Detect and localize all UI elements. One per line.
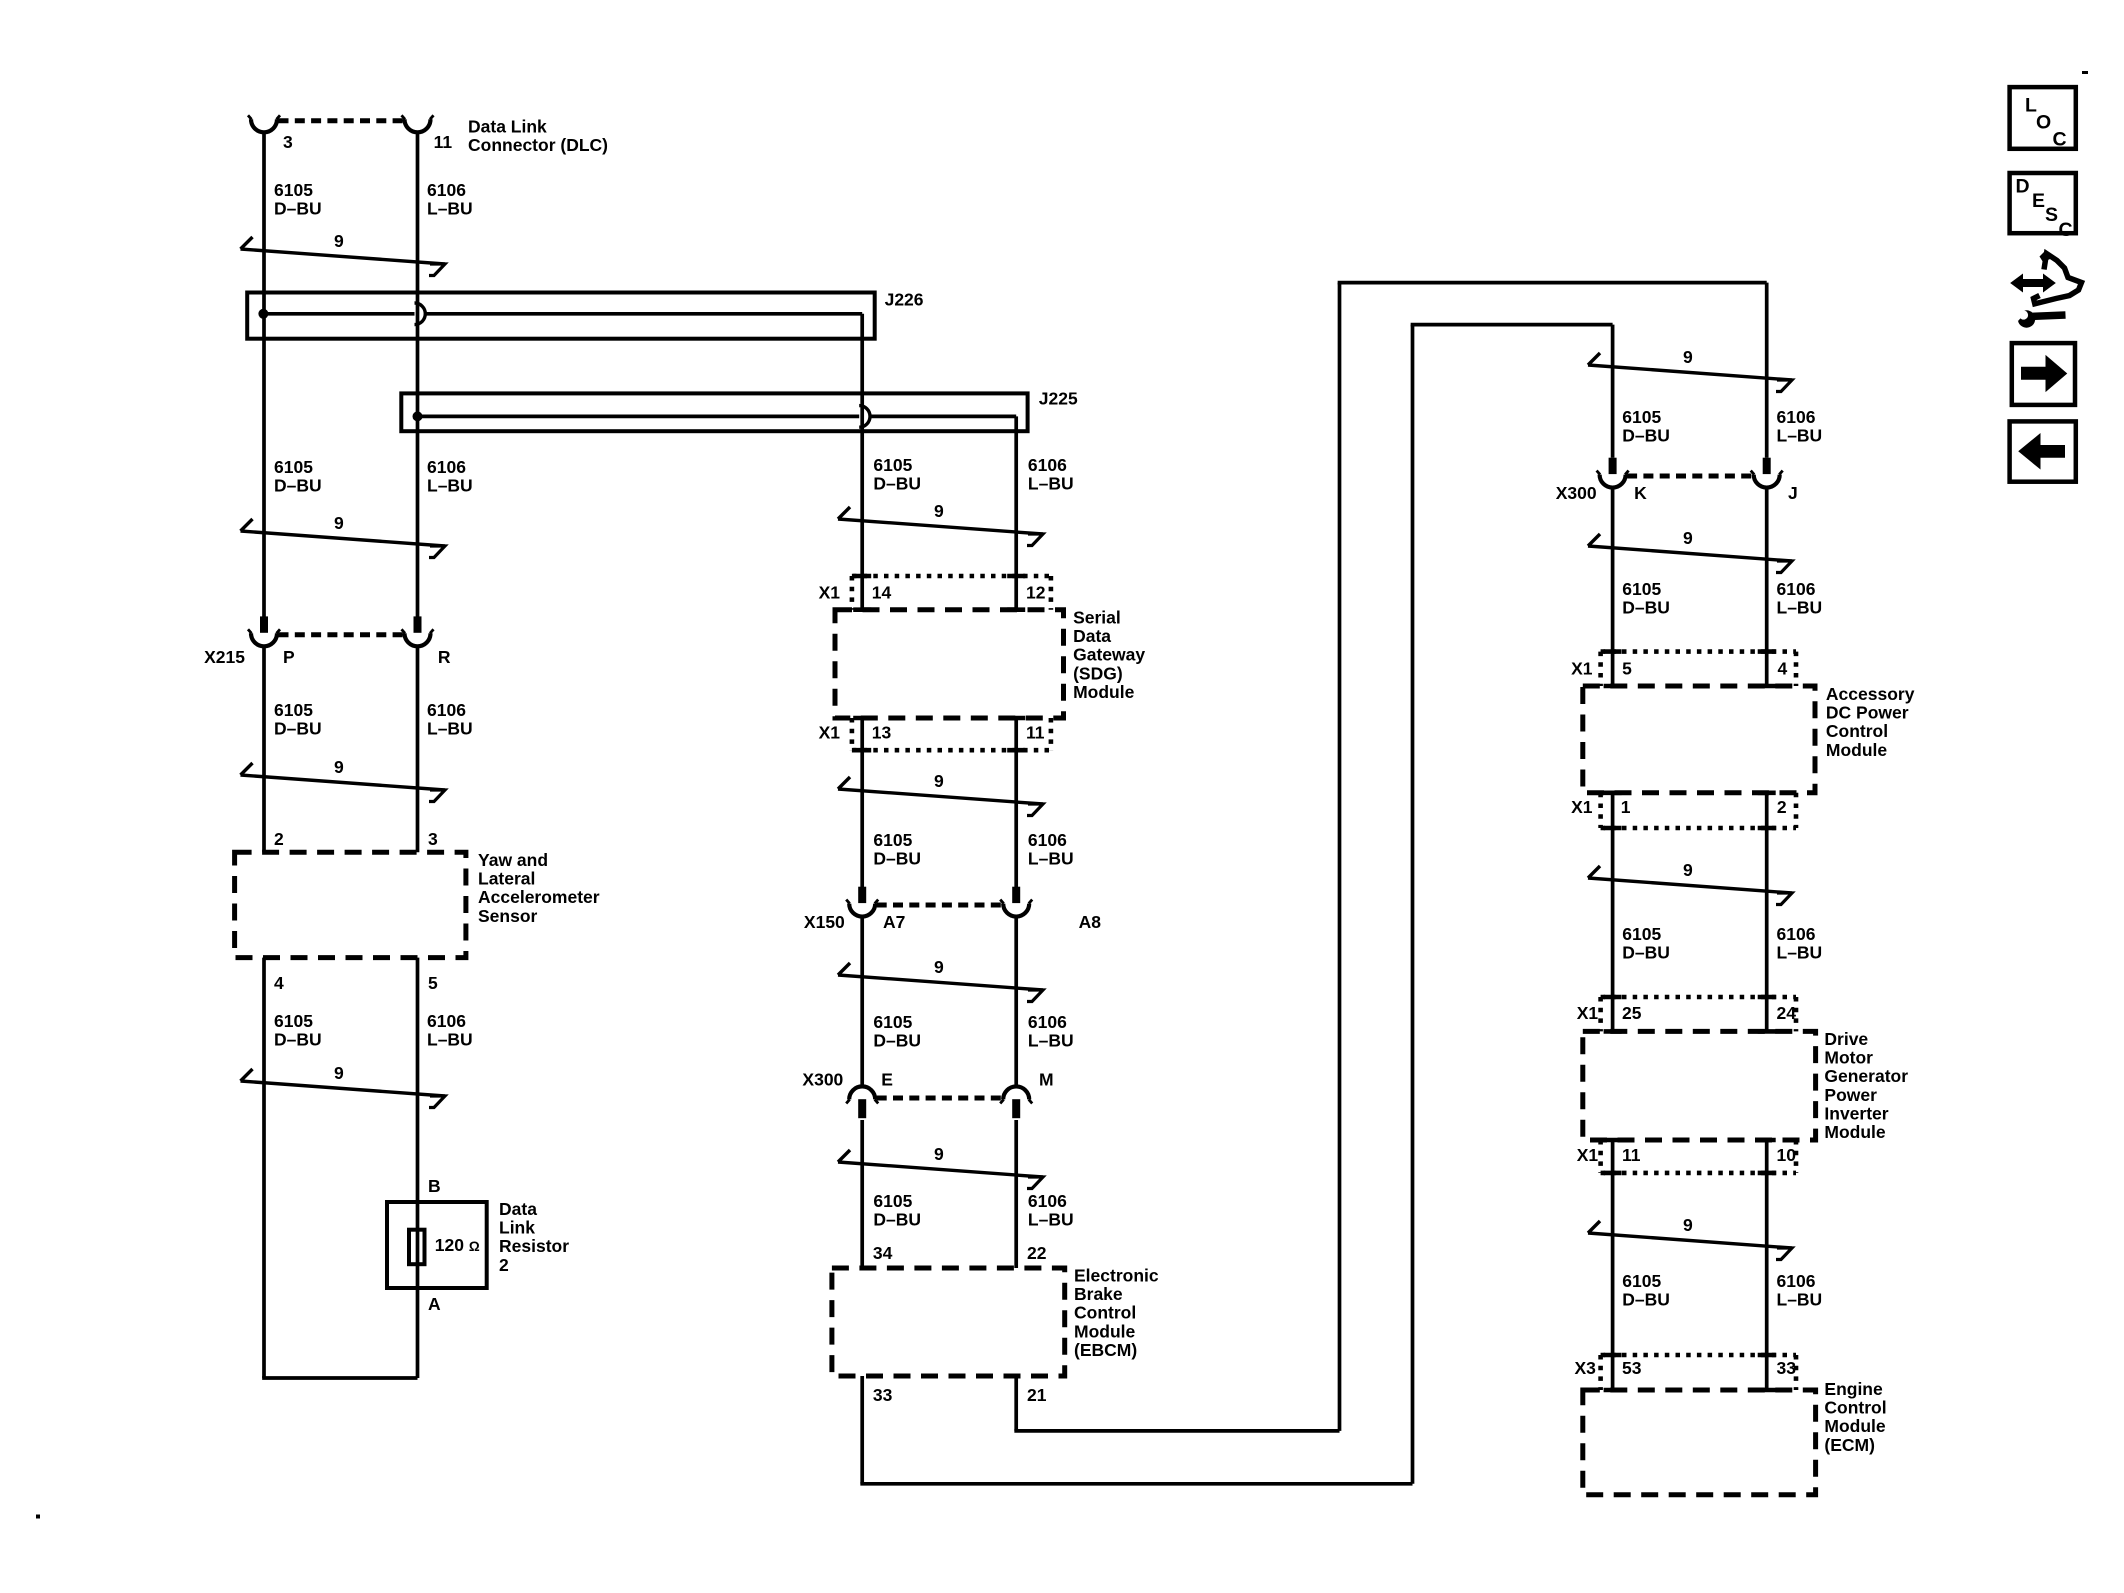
svg-text:(EBCM): (EBCM) [1074,1340,1137,1360]
svg-text:Module: Module [1826,740,1888,760]
wire 6105 D-BU from EBCM pin 33 routed right and up [860,1376,864,1484]
svg-text:Module: Module [1824,1122,1886,1142]
connector X3 band on top of ECM module [1601,1353,1796,1358]
svg-text:6105: 6105 [274,700,313,720]
connector X150 pin A7 (pin and cup) [858,887,866,903]
connector X215 pin R (pin and cup) [414,616,422,632]
svg-text:X1: X1 [819,723,841,743]
svg-text:9: 9 [934,957,944,977]
svg-text:6105: 6105 [274,180,313,200]
connector X1 band under Drive module [1601,1171,1796,1176]
svg-text:X150: X150 [804,912,845,932]
svg-text:Link: Link [499,1218,535,1238]
svg-text:5: 5 [1622,659,1632,679]
svg-text:6106: 6106 [427,180,466,200]
svg-text:Serial: Serial [1073,608,1121,628]
module Accessory DC Power Control Module box [1583,686,1815,793]
connector DLC pin 11 terminal cup [405,119,431,132]
connector X1 band on top of Accessory module [1601,649,1796,654]
svg-text:Control: Control [1074,1303,1136,1323]
svg-text:Gateway: Gateway [1073,645,1145,665]
svg-text:9: 9 [334,757,344,777]
svg-text:D–BU: D–BU [274,199,322,219]
svg-text:9: 9 [934,501,944,521]
wire 6105 D-BU from Accessory pin 1 to Drive module pin 25 [1611,793,1615,1032]
splice J225 box [401,393,1027,431]
svg-text:Resistor: Resistor [499,1236,569,1256]
svg-text:L–BU: L–BU [1777,1290,1823,1310]
connector X300 pin M (cup and pin, inverted) [1003,1086,1029,1099]
connector X300 pin E (cup and pin, inverted) [849,1086,875,1099]
wire 6106 L-BU from X300 J to Accessory module pin 4 [1765,489,1769,686]
svg-text:6106: 6106 [427,1011,466,1031]
twisted pair symbol 9 (right, above ECM) [1588,1221,1600,1233]
svg-text:L–BU: L–BU [427,199,473,219]
junction dot on wire 6105 at J226 [258,309,268,319]
svg-text:2: 2 [499,1255,509,1275]
svg-text:3: 3 [428,829,438,849]
svg-text:6106: 6106 [1028,1012,1067,1032]
svg-text:Data: Data [1073,626,1111,646]
svg-text:A8: A8 [1079,912,1102,932]
svg-text:6106: 6106 [1777,924,1816,944]
wire 6105 D-BU from X150 A7 to X300 pin E [860,918,864,1086]
svg-text:P: P [283,647,295,667]
svg-text:3: 3 [283,132,293,152]
twisted pair symbol 9 (right, below X300) [1588,534,1600,546]
svg-text:Yaw and: Yaw and [478,850,548,870]
connector X215 dashed body line [279,632,404,637]
svg-text:X1: X1 [1571,797,1593,817]
twisted pair symbol 9 (middle, below X150) [838,963,850,975]
twisted pair symbol 9 (left, below sensor) [241,1069,253,1081]
wire 6106 L-BU from DLC pin 11 to X215 pin R [416,131,420,617]
svg-text:Accessory: Accessory [1826,684,1915,704]
svg-text:9: 9 [934,1144,944,1164]
svg-text:21: 21 [1027,1385,1047,1405]
terminal bars for Accessory pins 5 and 4 [1604,649,1622,654]
svg-text:9: 9 [1683,1215,1693,1235]
terminal bars for Drive pins 25 and 24 [1604,995,1622,1000]
connector X150 dashed body line [877,903,1002,908]
wire 6105 D-BU from DLC pin 3 to X215 pin P [262,131,266,617]
svg-text:25: 25 [1622,1003,1642,1023]
svg-text:9: 9 [1683,347,1693,367]
svg-text:6106: 6106 [1028,455,1067,475]
connector X300 dashed body line (right) [1627,474,1752,479]
svg-text:Electronic: Electronic [1074,1266,1159,1286]
svg-text:L–BU: L–BU [1028,1031,1074,1051]
svg-text:Brake: Brake [1074,1284,1123,1304]
wire 6106 L-BU from X215 R to Yaw sensor pin 3 [416,648,420,852]
svg-text:6106: 6106 [427,457,466,477]
svg-text:Drive: Drive [1824,1029,1868,1049]
svg-text:X300: X300 [1556,483,1597,503]
module Engine Control Module (ECM) box [1583,1390,1816,1495]
svg-text:Lateral: Lateral [478,869,535,889]
svg-text:Module: Module [1073,682,1135,702]
twisted pair symbol 9 (DLC segment) [241,237,253,249]
wire joining 6105 and 6106 at bottom of resistor loop [262,1376,417,1380]
svg-text:K: K [1634,483,1647,503]
twisted pair symbol 9 (left, above X215) [241,519,253,531]
junction dot on wire 6106 at J225 [413,411,423,421]
svg-text:6106: 6106 [1028,830,1067,850]
svg-text:J225: J225 [1039,388,1078,408]
svg-text:11: 11 [1622,1145,1641,1165]
svg-text:L–BU: L–BU [1028,849,1074,869]
module Electronic Brake Control Module (EBCM) box [832,1268,1065,1376]
wire 6106 L-BU from EBCM pin 21 routed right and up [1014,1376,1018,1431]
svg-text:Module: Module [1074,1321,1136,1341]
svg-text:5: 5 [428,973,438,993]
wire 6106 L-BU from sensor pin 5 to resistor pin B [416,958,420,1378]
svg-text:D–BU: D–BU [274,719,322,739]
wire 6106 L-BU from SDG pin 11 to X150 pin A8 [1014,718,1018,887]
svg-text:Generator: Generator [1824,1066,1908,1086]
svg-text:J: J [1788,483,1798,503]
wire 6105 D-BU from X300 E to EBCM pin 34 [860,1120,864,1268]
svg-text:4: 4 [274,973,284,993]
wire 6105 D-BU from X300 K to Accessory module pin 5 [1611,489,1615,686]
svg-text:2: 2 [274,829,284,849]
svg-text:14: 14 [872,582,892,602]
terminal bars for ECM pins 53 and 33 [1604,1353,1622,1358]
twisted pair symbol 9 (middle, above EBCM) [838,1150,850,1162]
svg-text:Connector (DLC): Connector (DLC) [468,135,608,155]
svg-text:22: 22 [1027,1243,1047,1263]
connector X1 band under Accessory module [1601,826,1796,831]
svg-text:DC Power: DC Power [1826,703,1909,723]
svg-text:A7: A7 [883,912,905,932]
svg-text:X300: X300 [802,1070,843,1090]
svg-text:O: O [2036,112,2051,134]
twisted pair symbol 9 (right, below Accessory) [1588,866,1600,878]
svg-text:D–BU: D–BU [274,476,322,496]
connector X150 pin A8 (pin and cup) [1012,887,1020,903]
icon back arrow box [2010,421,2076,481]
svg-text:L–BU: L–BU [1028,474,1074,494]
icon harness routing (arrows and wrench) [2011,275,2055,292]
wire 6105 D-BU from SDG pin 13 to X150 pin A7 [860,718,864,887]
svg-text:11: 11 [1026,723,1045,743]
svg-text:L–BU: L–BU [1777,598,1823,618]
svg-text:9: 9 [1683,860,1693,880]
resistor R - Data Link Resistor 2 outer box [387,1202,487,1288]
svg-text:Sensor: Sensor [478,906,538,926]
svg-text:E: E [2032,190,2045,212]
connector X1 band on top of Drive module [1601,995,1796,1000]
svg-text:Accelerometer: Accelerometer [478,887,600,907]
svg-text:D–BU: D–BU [1622,1290,1670,1310]
twisted pair symbol 9 (right, above X300) [1588,353,1600,365]
twisted pair symbol 9 (middle, below SDG) [838,777,850,789]
svg-text:Motor: Motor [1824,1048,1873,1068]
svg-text:6105: 6105 [873,830,912,850]
wire 6106 L-BU from X150 A8 to X300 pin M [1014,918,1018,1086]
svg-text:6105: 6105 [1622,924,1661,944]
wire J225 internal 6106 bus with hop over middle 6105 [418,415,860,419]
connector X300 pin J (pin and cup) [1763,458,1771,474]
svg-text:9: 9 [1683,528,1693,548]
wire 6106 L-BU from Accessory pin 2 to Drive module pin 24 [1765,793,1769,1032]
module Serial Data Gateway (SDG) box [835,610,1064,718]
svg-text:L–BU: L–BU [1777,943,1823,963]
svg-text:D–BU: D–BU [1622,598,1670,618]
svg-text:J226: J226 [885,290,924,310]
svg-text:L–BU: L–BU [427,476,473,496]
connector DLC dashed body line [279,118,404,123]
svg-text:D–BU: D–BU [274,1030,322,1050]
svg-text:34: 34 [873,1243,893,1263]
svg-text:6106: 6106 [1777,1271,1816,1291]
wire 6106 L-BU from J225 to SDG module pin 12 [1014,416,1018,609]
page mark top right [2082,71,2088,74]
wire 6105 D-BU from sensor pin 4 to bottom loop [262,958,266,1378]
svg-text:6105: 6105 [274,1011,313,1031]
svg-text:Control: Control [1824,1398,1886,1418]
svg-text:S: S [2045,204,2058,226]
svg-text:120 Ω: 120 Ω [435,1235,480,1255]
svg-text:4: 4 [1778,659,1788,679]
svg-text:6105: 6105 [1622,1271,1661,1291]
icon DESC box [2010,173,2076,233]
wire J226 internal 6105 bus with hop over 6106 [263,312,414,316]
svg-text:Inverter: Inverter [1824,1103,1888,1123]
svg-text:M: M [1039,1070,1054,1090]
wire 6105 D-BU from X215 P to Yaw sensor pin 2 [262,648,266,852]
connector X215 pin P (pin and cup) [260,616,268,632]
resistor element 120 ohm [409,1230,425,1265]
svg-text:10: 10 [1777,1145,1797,1165]
wire 6105 D-BU from J226 to SDG module pin 14 [860,314,864,610]
wire 6106 L-BU from Drive pin 10 to ECM pin 33 [1765,1140,1769,1390]
svg-text:D–BU: D–BU [1622,943,1670,963]
connector X300 dashed body line (middle) [877,1096,1002,1101]
svg-text:D–BU: D–BU [873,1031,921,1051]
svg-text:Control: Control [1826,721,1888,741]
svg-text:D–BU: D–BU [873,1210,921,1230]
svg-text:6105: 6105 [1622,579,1661,599]
svg-text:Data: Data [499,1199,537,1219]
svg-text:6106: 6106 [1028,1191,1067,1211]
connector X300 pin K (pin and cup) [1609,458,1617,474]
svg-text:6106: 6106 [1777,407,1816,427]
terminal bars for Drive pins 11 and 10 [1604,1138,1622,1143]
wire 6105 D-BU from Drive pin 11 to ECM pin 53 [1611,1140,1615,1390]
svg-text:X1: X1 [1577,1145,1599,1165]
svg-text:33: 33 [1777,1358,1797,1378]
svg-text:L–BU: L–BU [1777,426,1823,446]
svg-text:13: 13 [872,723,892,743]
svg-text:D–BU: D–BU [1622,426,1670,446]
terminal bars for Accessory pins 1 and 2 [1604,790,1622,795]
svg-text:X1: X1 [819,582,841,602]
svg-text:Data Link: Data Link [468,117,547,137]
wire 6106 L-BU down to X300 pin J [1765,283,1769,458]
svg-text:6105: 6105 [873,1012,912,1032]
svg-text:(ECM): (ECM) [1824,1435,1875,1455]
svg-text:Power: Power [1824,1085,1877,1105]
svg-text:11: 11 [434,132,453,152]
svg-text:B: B [428,1176,441,1196]
svg-text:A: A [428,1294,441,1314]
svg-text:L–BU: L–BU [427,1030,473,1050]
splice J226 box [247,293,875,339]
svg-text:33: 33 [873,1385,893,1405]
svg-text:9: 9 [334,1063,344,1083]
svg-text:53: 53 [1622,1358,1642,1378]
svg-text:2: 2 [1777,797,1787,817]
terminal bars for SDG pins 13 and 11 [853,716,871,721]
svg-text:C: C [2059,219,2073,241]
svg-text:Engine: Engine [1824,1379,1883,1399]
svg-text:24: 24 [1777,1003,1797,1023]
svg-text:L–BU: L–BU [427,719,473,739]
svg-text:9: 9 [934,771,944,791]
connector DLC pin 3 terminal cup [251,119,277,132]
svg-text:X1: X1 [1571,659,1593,679]
module Drive Motor Generator Power Inverter Module box [1583,1031,1816,1140]
svg-text:9: 9 [334,513,344,533]
svg-text:R: R [438,647,451,667]
svg-text:Module: Module [1824,1416,1886,1436]
icon forward arrow box [2012,343,2075,405]
connector X1 band under SDG module [852,748,1051,753]
svg-text:6105: 6105 [274,457,313,477]
svg-text:9: 9 [334,231,344,251]
svg-text:6106: 6106 [1777,579,1816,599]
svg-text:X3: X3 [1574,1358,1596,1378]
svg-text:6105: 6105 [1622,407,1661,427]
svg-text:C: C [2053,129,2067,151]
svg-text:D–BU: D–BU [873,474,921,494]
svg-text:(SDG): (SDG) [1073,663,1123,683]
wire 6105 D-BU down to X300 pin K [1611,325,1615,458]
page mark bottom left [36,1515,40,1519]
svg-text:X215: X215 [204,647,245,667]
twisted pair symbol 9 (left, above sensor) [241,763,253,775]
connector X1 band on top of SDG module [852,574,1051,579]
svg-text:6105: 6105 [873,1191,912,1211]
twisted pair symbol 9 (middle, above SDG) [838,507,850,519]
svg-text:6106: 6106 [427,700,466,720]
svg-text:D: D [2016,175,2030,197]
svg-text:12: 12 [1026,582,1046,602]
svg-text:D–BU: D–BU [873,849,921,869]
icon LOC box [2010,87,2076,149]
module Yaw and Lateral Accelerometer Sensor box [235,852,466,957]
svg-text:1: 1 [1621,797,1631,817]
svg-text:E: E [881,1070,893,1090]
svg-text:6105: 6105 [873,455,912,475]
terminal bars for SDG pins 14 and 12 [853,574,871,579]
svg-text:X1: X1 [1577,1003,1599,1023]
wire 6106 L-BU from X300 M to EBCM pin 22 [1014,1120,1018,1268]
svg-text:L–BU: L–BU [1028,1210,1074,1230]
